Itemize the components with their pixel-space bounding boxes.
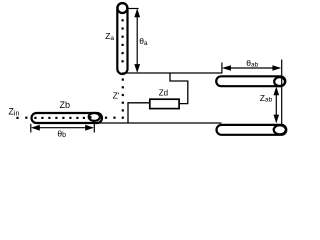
- wire short-circuit right vertical: [281, 60, 283, 125]
- wire from Zd left terminal to bottom wire: [128, 103, 150, 123]
- transmission line Zb: [32, 113, 103, 123]
- dotted line right of Zb circle: [89, 116, 115, 119]
- impedance Zd: [150, 99, 179, 108]
- svg-text:Zb: Zb: [60, 100, 71, 110]
- dotted centerline of Za: [122, 19, 124, 62]
- transmission line AB top: [216, 76, 285, 86]
- svg-text:Z': Z': [113, 91, 120, 101]
- dimension arrow θb: [31, 122, 95, 133]
- wire top horizontal: [122, 72, 222, 74]
- transmission line Za: [117, 3, 127, 74]
- dotted line into Zb input: [16, 117, 27, 119]
- node Z' vertical dotted line: [122, 79, 124, 119]
- transmission line AB bottom: [217, 125, 287, 135]
- wire from top wire to Zd right terminal: [170, 73, 188, 104]
- svg-text:Zd: Zd: [159, 88, 168, 97]
- wire bottom horizontal: [96, 122, 222, 124]
- dotted centerline of Zb: [34, 117, 85, 119]
- dimension arrow θab: [222, 63, 281, 74]
- dimension arrow θa: [128, 9, 140, 73]
- dimension arrow Zab: [274, 86, 280, 123]
